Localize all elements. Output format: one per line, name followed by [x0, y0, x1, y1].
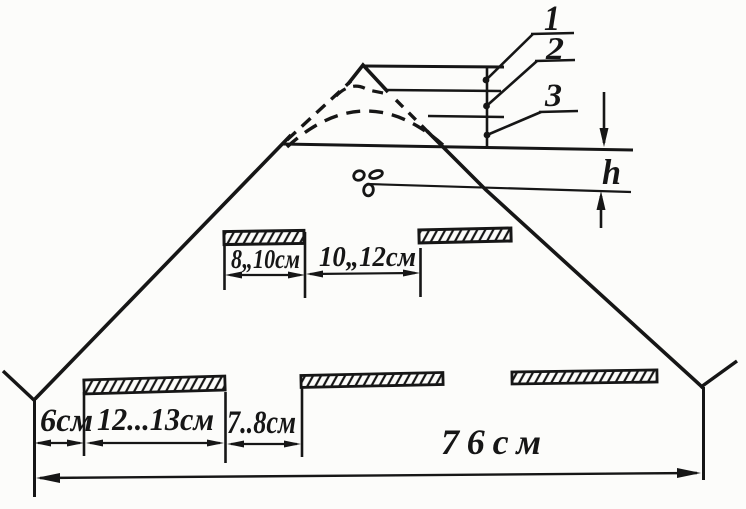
h dimension up arrow	[600, 196, 603, 228]
extension below lower-left rect right edge	[224, 392, 227, 463]
sprout glyph	[352, 169, 383, 196]
right extension vertical	[702, 387, 705, 480]
level line 3	[428, 116, 504, 117]
extension below upper-left rect right edge	[304, 232, 307, 298]
svg-text:2: 2	[545, 30, 564, 66]
lower tuber rectangle middle	[301, 372, 443, 387]
node dot 1	[483, 77, 490, 84]
right base tick	[701, 361, 737, 387]
upper tuber rectangle left	[224, 230, 304, 244]
right slope solid	[427, 131, 703, 388]
h dimension down arrow	[603, 92, 606, 143]
upper ground baseline	[282, 144, 633, 150]
label 1 underline	[531, 33, 574, 34]
dimension 12..13 cm line	[90, 442, 220, 444]
svg-text:6cм: 6cм	[40, 403, 93, 439]
svg-text:7..8cм: 7..8cм	[227, 405, 296, 441]
dimension 8..10 cm line	[230, 274, 300, 276]
node dot 3	[484, 132, 491, 139]
leader to label 2	[487, 61, 538, 106]
left slope solid	[35, 135, 291, 399]
h lower reference line	[367, 184, 631, 192]
right slope dashed segment	[396, 100, 432, 136]
extension below lower-left rect left edge	[83, 392, 86, 456]
upper tuber rectangle right	[419, 228, 511, 243]
dimension 10..12 cm line	[310, 273, 415, 274]
node dot 2	[483, 103, 490, 110]
callout vertical line	[486, 66, 489, 148]
level line 1	[363, 66, 504, 67]
leader to label 1	[486, 34, 533, 80]
extension below upper-left rect left edge	[223, 245, 226, 290]
svg-text:3: 3	[544, 78, 562, 114]
left base tick	[3, 371, 35, 401]
dashed ridge profile 3 arc	[287, 111, 443, 147]
left slope dashed upper part	[287, 81, 351, 140]
svg-text:8„10cм: 8„10cм	[231, 244, 300, 274]
extension below lower-middle rect left edge	[301, 386, 304, 457]
extension below upper-right rect left edge	[419, 248, 422, 297]
svg-text:12...13cм: 12...13cм	[97, 401, 214, 437]
dimension 7..8 cm line	[231, 443, 297, 445]
lower tuber rectangle left	[84, 376, 225, 394]
overall 76 cm dimension line	[40, 473, 697, 478]
svg-text:10„12cм: 10„12cм	[319, 242, 416, 273]
svg-text:h: h	[602, 152, 621, 192]
label 3 underline	[539, 111, 578, 112]
level line 2	[386, 90, 501, 91]
leader to label 3	[487, 112, 541, 135]
dashed ridge profile 2 peak	[336, 86, 383, 96]
dimension 6 cm line	[38, 442, 80, 444]
lower tuber rectangle right	[512, 370, 657, 384]
label 2 underline	[535, 60, 575, 61]
apex of ridge profile 1	[348, 65, 388, 92]
left extension vertical	[33, 399, 36, 497]
